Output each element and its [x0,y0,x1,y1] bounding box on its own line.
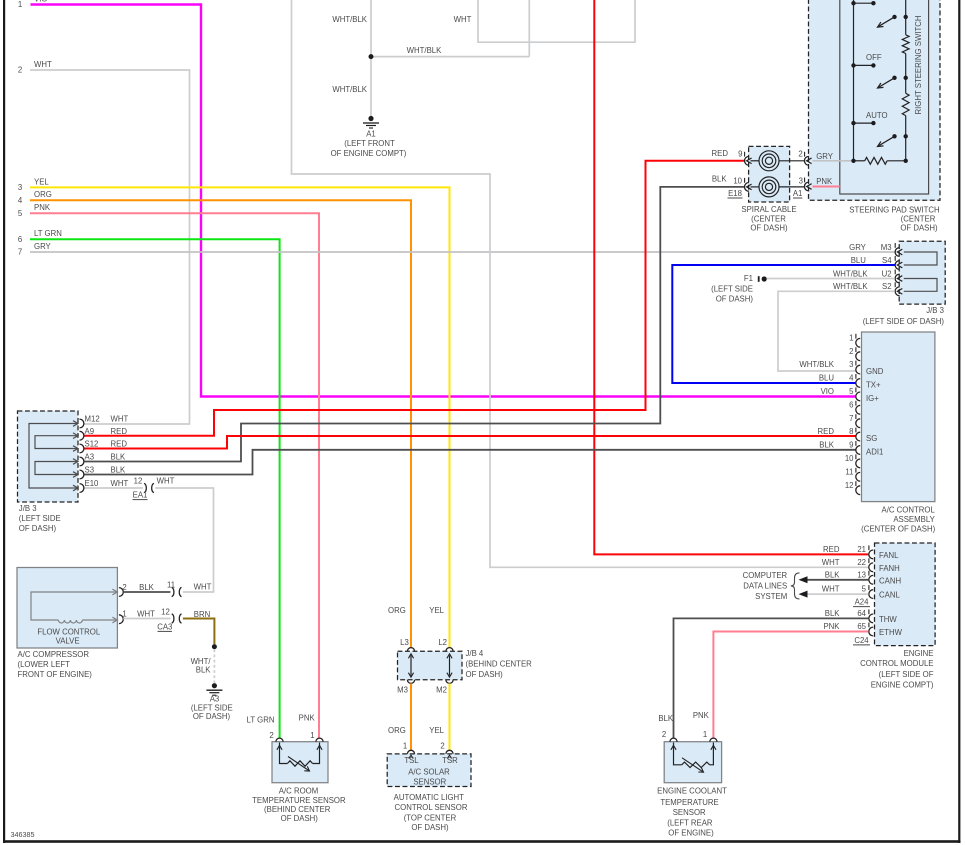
svg-text:SPIRAL CABLE: SPIRAL CABLE [741,205,796,214]
node 6 LT GRN wire to A/C room temperature sensor pin 2 [30,239,280,738]
resistor upper [902,35,909,54]
svg-text:6: 6 [18,235,22,244]
svg-text:3: 3 [18,183,22,192]
svg-text:ADI1: ADI1 [866,447,883,456]
svg-text:SG: SG [866,434,877,443]
wire YEL J/B4 M2 to solar sensor pin 2 [449,683,451,750]
svg-text:M2: M2 [436,686,447,695]
wire PNK ECM pin 65 ETHW to coolant sensor pin 1 [713,632,868,739]
svg-text:M12: M12 [85,415,100,424]
svg-text:ORG: ORG [388,606,406,615]
svg-text:1: 1 [849,333,853,342]
svg-text:5: 5 [862,585,867,594]
engine control module box (left side of engine compt) [875,543,936,646]
svg-text:THW: THW [879,615,897,624]
splice dot [212,644,217,649]
svg-text:11: 11 [167,581,175,590]
node 5 PNK wire to A/C room temperature sensor pin 1 [30,213,319,738]
junction block J/B3 (left side of dash) [18,411,79,502]
steering pad pin 2 [804,156,808,165]
svg-text:J/B 3: J/B 3 [19,504,37,513]
wire WHT CANL [807,593,869,595]
svg-text:4: 4 [849,374,854,383]
svg-text:4: 4 [18,196,23,205]
J/B3 internal link U2-S2 [904,279,937,292]
spiral cable pin 9 [745,156,749,165]
svg-text:BLK: BLK [111,453,127,462]
svg-text:ETHW: ETHW [879,628,903,637]
flow control valve internal circuit with coil [31,592,116,620]
svg-text:EA1: EA1 [133,491,148,500]
svg-text:CANL: CANL [879,591,900,600]
svg-text:TEMPERATURE: TEMPERATURE [660,798,718,807]
svg-text:BLK: BLK [658,714,674,723]
svg-text:OF DASH): OF DASH) [19,524,57,533]
svg-text:65: 65 [857,622,866,631]
wire WHT from top to ECM pin 22 FANH [292,0,869,567]
svg-text:2: 2 [440,742,444,751]
svg-text:VIO: VIO [34,0,47,4]
coolant sensor pin 2 [670,738,677,742]
svg-text:M3: M3 [397,686,408,695]
svg-text:WHT/BLK: WHT/BLK [799,360,834,369]
svg-text:VIO: VIO [821,387,834,396]
svg-text:A1: A1 [366,130,376,139]
svg-text:A/C CONTROL: A/C CONTROL [882,505,936,514]
wire RED from top to ECM pin 21 FANL [594,0,868,554]
svg-text:3: 3 [849,360,853,369]
svg-text:DATA LINES: DATA LINES [743,582,787,591]
svg-text:TEMPERATURE SENSOR: TEMPERATURE SENSOR [252,796,346,805]
svg-text:WHT/BLK: WHT/BLK [833,269,868,278]
svg-text:YEL: YEL [429,606,444,615]
svg-text:BLK: BLK [825,570,841,579]
svg-text:BLK: BLK [819,441,835,450]
switch contact row at y=3.2 [854,2,874,4]
solar sensor pin 1 TSL [407,750,414,754]
svg-text:(LEFT SIDE OF: (LEFT SIDE OF [879,670,934,679]
node 1 VIO wire from connector 1 to A/C control assembly pin 5 IG+ [31,5,856,397]
wire ORG J/B4 M3 to solar sensor pin 1 [410,683,412,750]
svg-text:BLK: BLK [139,583,155,592]
A/C control assembly pin 11 [856,472,860,481]
wire BRN connector 12 to splice [183,619,215,645]
svg-text:A1: A1 [793,189,803,198]
J/B3 right pin M3 [895,248,899,257]
A/C control assembly pin 3 [856,365,860,374]
svg-text:A/C ROOM: A/C ROOM [279,787,318,796]
coolant sensor pin 1 [710,738,717,742]
ground A3 (left side of dash) [212,683,217,688]
svg-text:OF ENGINE COMPT): OF ENGINE COMPT) [331,149,407,158]
J/B3 right pin S4 [895,261,899,270]
svg-text:U2: U2 [882,269,892,278]
svg-text:RED: RED [111,440,128,449]
connector EA1 (inline) [144,483,146,492]
steering pad pin 3 + PNK link [812,186,839,188]
svg-text:12: 12 [161,608,170,617]
svg-text:OF DASH): OF DASH) [411,823,449,832]
A/C compressor pin 2 [119,588,123,597]
svg-text:TSL: TSL [404,756,419,765]
svg-text:FRONT OF ENGINE): FRONT OF ENGINE) [18,670,93,679]
wire WHT loop at top (cut off) [478,0,635,42]
svg-text:1: 1 [310,731,314,740]
svg-text:GND: GND [866,367,884,376]
J/B3 right pin S2 [895,287,899,296]
junction block J/B3 right (left side of dash) [899,241,945,304]
A/C control assembly pin 6 [856,405,860,414]
svg-text:12: 12 [845,481,854,490]
svg-text:OF DASH): OF DASH) [281,814,319,823]
svg-text:WHT/BLK: WHT/BLK [407,46,442,55]
wire RED J/B3 pin S12 to A/C control assembly pin 8 SG [84,436,856,449]
svg-text:5: 5 [849,387,854,396]
wire RED spiral cable pin 9 to J/B3 pin A9 [84,161,744,436]
svg-text:3: 3 [799,176,803,185]
room sensor pin 1 [316,738,323,742]
svg-text:9: 9 [849,441,853,450]
svg-text:WHT: WHT [111,479,129,488]
junction block J/B4 (behind center of dash) [398,651,463,680]
svg-text:WHT: WHT [822,585,840,594]
node 7 GRY wire to J/B3 pin M3 [30,251,895,253]
svg-text:5: 5 [18,209,23,218]
svg-text:FANH: FANH [879,564,900,573]
svg-text:1: 1 [122,610,126,619]
J/B3 right pin U2 [895,274,899,283]
svg-text:2: 2 [18,66,22,75]
svg-text:E18: E18 [728,189,742,198]
thermistor element [280,743,288,764]
svg-text:OF DASH): OF DASH) [466,670,504,679]
A/C control assembly pin 7 [856,419,860,428]
svg-text:FLOW CONTROL: FLOW CONTROL [37,627,100,636]
node 4 ORG wire to J/B4 pin L3 [30,200,411,647]
engine coolant temperature sensor box [664,742,721,783]
svg-text:PNK: PNK [816,177,833,186]
switch contact row at y=65.4 [854,64,874,66]
svg-text:COMPUTER: COMPUTER [743,571,788,580]
svg-text:ASSEMBLY: ASSEMBLY [893,515,935,524]
svg-text:TX+: TX+ [866,380,881,389]
connector 12 / CA3 (inline) [172,614,174,623]
A/C room temperature sensor box [272,742,328,783]
wire BLK spiral cable pin 10 to J/B3 pin A3 [84,187,744,462]
svg-text:WHT: WHT [34,60,52,69]
svg-text:A24: A24 [855,598,870,607]
A/C control assembly box (center of dash) [862,332,935,502]
wire WHT J/B3 pin E10 through connector EA1 to A/C compressor pin 11 [84,487,143,489]
svg-text:SYSTEM: SYSTEM [755,592,787,601]
svg-text:IG+: IG+ [866,394,879,403]
switch contact row at y=123.1 [854,122,874,124]
J/B3 pin S12 [80,444,84,453]
svg-text:FANL: FANL [879,551,899,560]
A/C control assembly pin 10 [856,459,860,468]
room sensor pin 2 [276,738,283,742]
resistor lower [902,93,909,115]
switch blade at y=136.3 [892,134,896,138]
svg-text:S2: S2 [882,282,892,291]
svg-text:J/B 4: J/B 4 [466,649,484,658]
svg-text:(LOWER LEFT: (LOWER LEFT [18,660,71,669]
svg-text:RED: RED [823,545,840,554]
steering pad switch box (center of dash) [809,0,941,200]
svg-text:64: 64 [857,609,866,618]
wire BLK compressor pin 2 to connector 11 [123,591,170,593]
svg-text:BLK: BLK [196,666,212,675]
junction dot [369,54,374,59]
A/C compressor pin 1 [119,615,123,624]
A/C compressor box (lower left front of engine) [17,568,117,649]
svg-text:GRY: GRY [34,242,52,251]
switch blade at y=16.9 [892,15,896,19]
svg-text:PNK: PNK [693,711,710,720]
svg-text:E10: E10 [85,479,100,488]
svg-text:CONTROL MODULE: CONTROL MODULE [860,659,933,668]
svg-text:BLU: BLU [851,256,867,265]
svg-text:1: 1 [18,0,22,9]
switch frame rectangle [840,0,929,194]
svg-text:10: 10 [845,454,854,463]
wire BLU J/B3 pin S4 to A/C control assembly pin 4 TX+ [672,265,895,383]
wire WHT/BLK J/B3 pin S2 to A/C control assembly pin 3 GND [778,291,895,371]
svg-text:A3: A3 [85,453,95,462]
svg-text:OF DASH): OF DASH) [193,712,231,721]
J/B3 internal link M12-E10 [29,424,77,489]
svg-text:STEERING PAD SWITCH: STEERING PAD SWITCH [849,206,939,215]
svg-text:VALVE: VALVE [56,637,80,646]
svg-text:CONTROL SENSOR: CONTROL SENSOR [395,803,468,812]
svg-text:(LEFT SIDE: (LEFT SIDE [711,285,753,294]
wire BLK ECM pin 64 THW to coolant sensor pin 2 [674,618,869,738]
svg-text:A9: A9 [85,427,95,436]
svg-text:RED: RED [712,149,729,158]
J/B3 pin S3 [80,470,84,479]
svg-text:9: 9 [738,149,742,158]
svg-text:S4: S4 [882,256,892,265]
svg-text:21: 21 [857,545,866,554]
svg-text:ORG: ORG [388,726,406,735]
svg-text:RED: RED [818,427,835,436]
ECM pin 22 FANH [869,563,873,572]
svg-text:(BEHIND CENTER: (BEHIND CENTER [264,805,331,814]
thermistor element [674,743,682,765]
svg-text:LT GRN: LT GRN [247,715,275,724]
connector 11 (inline) [172,587,174,596]
svg-text:1: 1 [703,730,707,739]
svg-text:AUTOMATIC LIGHT: AUTOMATIC LIGHT [394,793,465,802]
svg-text:YEL: YEL [429,726,444,735]
svg-text:ORG: ORG [34,190,52,199]
J/B3 internal link A3-S3 [35,462,77,475]
J/B3 internal link A9-S12 [35,436,77,449]
svg-text:A/C SOLAR: A/C SOLAR [408,768,450,777]
svg-text:22: 22 [857,558,866,567]
spiral cable pin 10 [745,183,749,192]
J/B3 pin E10 [80,484,84,493]
svg-text:WHT: WHT [822,558,840,567]
svg-text:WHT: WHT [111,415,129,424]
svg-text:GRY: GRY [849,243,867,252]
node 3 YEL wire to J/B4 pin L2 [30,187,450,647]
ECM pin 5 CANL [869,590,873,599]
svg-text:PNK: PNK [34,203,51,212]
svg-text:OF DASH): OF DASH) [716,295,754,304]
svg-text:TSR: TSR [442,756,458,765]
svg-text:CANH: CANH [879,576,901,585]
J/B3 pin A3 [80,457,84,466]
A/C control assembly pin 1 [856,338,860,347]
svg-text:WHT: WHT [194,582,212,591]
svg-text:(TOP CENTER: (TOP CENTER [404,813,457,822]
svg-text:BLK: BLK [712,175,728,184]
svg-text:1: 1 [403,742,407,751]
svg-text:7: 7 [849,414,853,423]
svg-text:OF DASH): OF DASH) [750,224,788,233]
right bus with resistors [905,0,907,35]
svg-text:(CENTER OF DASH): (CENTER OF DASH) [861,524,935,533]
ECM pin 64 THW [869,614,873,623]
svg-text:2: 2 [849,347,853,356]
svg-text:2: 2 [798,150,802,159]
A/C control assembly pin 12 [856,486,860,495]
svg-text:CA3: CA3 [157,622,172,631]
J/B3 internal link M3-S4 [904,252,937,265]
svg-text:C24: C24 [854,636,869,645]
svg-text:6: 6 [849,400,853,409]
GRY row with horizontal resistor [812,160,853,162]
svg-text:GRY: GRY [816,152,834,161]
svg-text:WHT/BLK: WHT/BLK [332,15,367,24]
svg-text:2: 2 [122,583,126,592]
A/C control assembly pin 9 [856,446,860,455]
wire WHT/BLK dashed to ground A3 [213,649,215,683]
svg-text:12: 12 [134,476,143,485]
fusible link F1 (left side of dash) [758,276,760,282]
svg-text:AUTO: AUTO [866,111,888,120]
svg-text:(BEHIND CENTER: (BEHIND CENTER [466,660,533,669]
svg-text:BLK: BLK [825,609,841,618]
svg-text:(LEFT FRONT: (LEFT FRONT [344,139,395,148]
svg-text:BLK: BLK [111,466,127,475]
wire BLK J/B3 pin S3 to A/C control assembly pin 9 ADI1 [84,450,856,475]
svg-text:(CENTER: (CENTER [901,215,936,224]
A/C control assembly pin 2 [856,352,860,361]
spiral coil at y=186.9 [759,177,779,197]
svg-text:(LEFT SIDE: (LEFT SIDE [19,514,61,523]
svg-text:11: 11 [845,467,853,476]
svg-text:F1: F1 [744,274,753,283]
J/B4 pin L2/M2 [446,648,453,652]
ECM pin 21 FANL [869,550,873,559]
svg-text:PNK: PNK [823,622,840,631]
svg-text:OF DASH): OF DASH) [900,223,938,232]
J/B3 pin A9 [80,431,84,440]
wire WHT compressor pin 1 to connector 12 [123,618,170,620]
svg-text:WHT/BLK: WHT/BLK [833,282,868,291]
svg-text:OFF: OFF [866,53,882,62]
svg-text:A/C COMPRESSOR: A/C COMPRESSOR [18,650,90,659]
wire WHT/BLK vertical to ground A1 with junction [370,0,372,118]
A/C control assembly pin 5 [856,392,860,401]
svg-text:(LEFT SIDE OF DASH): (LEFT SIDE OF DASH) [863,317,945,326]
svg-text:BLU: BLU [819,374,835,383]
svg-text:WHT: WHT [157,476,175,485]
svg-text:RED: RED [111,427,128,436]
svg-text:WHT: WHT [454,15,472,24]
svg-text:RIGHT STEERING SWITCH: RIGHT STEERING SWITCH [914,15,923,114]
ground A1 (left front of engine compt) [368,116,373,121]
J/B3 pin M12 [80,419,84,428]
svg-text:7: 7 [18,248,22,257]
left bus [853,0,855,161]
svg-text:J/B 3: J/B 3 [926,306,944,315]
ECM pin 65 ETHW [869,627,873,636]
A/C solar sensor box [387,754,471,787]
svg-text:S3: S3 [85,466,95,475]
svg-text:ENGINE COMPT): ENGINE COMPT) [871,681,934,690]
wire WHT/BLK branch to the right [371,56,529,58]
svg-text:A3: A3 [210,694,220,703]
svg-text:M3: M3 [881,243,892,252]
svg-text:LT GRN: LT GRN [34,229,62,238]
svg-text:8: 8 [849,427,853,436]
wire WHT/BLK F1 to J/B3 pin U2 [767,278,895,280]
solar sensor pin 2 TSR [446,750,453,754]
J/B4 pin L3/M3 [407,648,414,652]
svg-text:ENGINE COOLANT: ENGINE COOLANT [657,787,727,796]
node 2 WHT wire from connector 2 to J/B3 pin M12 [30,70,190,424]
svg-text:S12: S12 [85,440,99,449]
ECM pin 13 CANH [869,575,873,584]
svg-text:PNK: PNK [299,714,316,723]
A/C control assembly pin 4 [856,379,860,388]
svg-text:(CENTER: (CENTER [751,214,786,223]
switch blade at y=77.8 [892,76,896,80]
wire BLK CANH [807,579,869,581]
svg-text:ENGINE: ENGINE [904,649,934,658]
svg-text:2: 2 [269,731,273,740]
svg-text:13: 13 [857,570,866,579]
A/C control assembly pin 8 [856,432,860,441]
svg-text:WHT/BLK: WHT/BLK [332,85,367,94]
svg-text:346385: 346385 [11,830,35,839]
svg-text:SENSOR: SENSOR [413,777,446,786]
svg-text:2: 2 [662,730,666,739]
svg-text:OF ENGINE): OF ENGINE) [668,828,714,837]
spiral cable component (center of dash) [749,146,790,202]
svg-text:SENSOR: SENSOR [673,808,706,817]
svg-text:10: 10 [733,176,742,185]
svg-text:L2: L2 [438,638,447,647]
svg-text:L3: L3 [400,638,409,647]
svg-text:(LEFT REAR: (LEFT REAR [667,818,713,827]
svg-text:WHT: WHT [137,610,155,619]
spiral coil at y=160.8 [759,151,779,171]
svg-text:YEL: YEL [34,177,49,186]
